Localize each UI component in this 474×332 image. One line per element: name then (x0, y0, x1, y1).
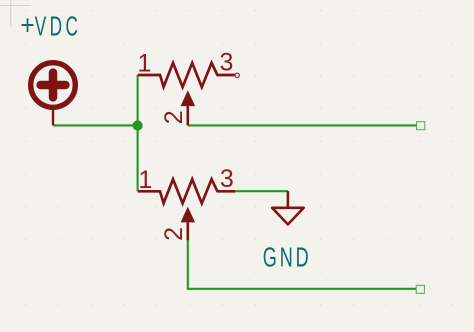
svg-text:VDC: VDC (35, 10, 82, 41)
svg-text:3: 3 (220, 165, 234, 193)
svg-text:1: 1 (138, 166, 152, 194)
svg-text:1: 1 (138, 50, 152, 78)
svg-text:2: 2 (160, 110, 188, 124)
svg-text:+: + (20, 9, 34, 41)
svg-text:2: 2 (160, 227, 188, 241)
svg-text:3: 3 (220, 49, 234, 77)
svg-text:GND: GND (263, 241, 312, 272)
